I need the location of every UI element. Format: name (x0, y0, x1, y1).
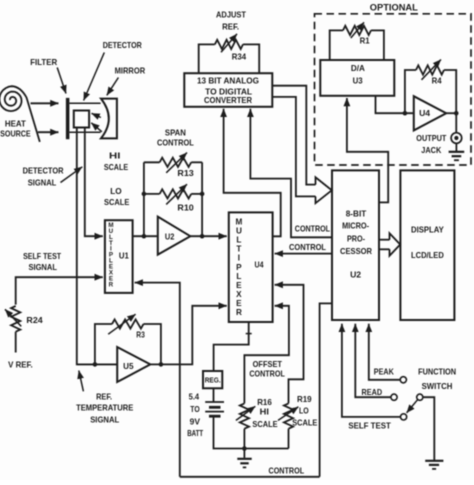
wire heat arrows to filter (31, 102, 59, 104)
svg-text:SCALE: SCALE (104, 162, 129, 172)
svg-text:U2: U2 (165, 231, 175, 241)
svg-text:P: P (236, 263, 242, 272)
svg-text:MICRO-: MICRO- (342, 221, 369, 231)
svg-text:HI: HI (260, 407, 269, 417)
svg-text:TEMPERATURE: TEMPERATURE (76, 403, 134, 413)
svg-text:OPTIONAL: OPTIONAL (370, 3, 419, 13)
node junction R3 left (93, 362, 98, 367)
mirror (101, 99, 117, 139)
svg-text:T: T (236, 245, 241, 254)
wire battery to ground bus (214, 416, 289, 448)
svg-text:R4: R4 (432, 76, 442, 86)
d/a converter U3 (320, 60, 394, 96)
svg-text:8-BIT: 8-BIT (346, 209, 367, 219)
svg-text:9V: 9V (190, 416, 201, 426)
regulator REG (203, 371, 222, 388)
ground battery (243, 449, 245, 458)
wire adc data bus (272, 86, 315, 185)
optional dashed box (315, 14, 472, 165)
heat source spiral (0, 86, 40, 142)
ground output jack (455, 143, 457, 151)
svg-text:R3: R3 (136, 330, 145, 340)
svg-text:CESSOR: CESSOR (340, 246, 372, 256)
wire R24 to V REF (15, 332, 17, 353)
svg-text:R24: R24 (26, 315, 43, 325)
svg-text:SOURCE: SOURCE (0, 129, 31, 139)
wire self test to microprocessor (342, 324, 401, 417)
svg-text:L: L (236, 272, 241, 281)
wire U4 output to adc (224, 109, 281, 237)
svg-text:U3: U3 (353, 76, 363, 86)
resistor R16 (240, 403, 249, 428)
svg-text:REG.: REG. (205, 376, 221, 385)
svg-text:CONVERTER: CONVERTER (204, 95, 252, 105)
svg-text:REF.: REF. (96, 392, 112, 402)
svg-text:CONTROL: CONTROL (295, 224, 330, 234)
svg-text:FUNCTION: FUNCTION (418, 366, 456, 376)
resistor R10 (144, 193, 160, 195)
filter label arrow (57, 68, 66, 94)
svg-text:DETECTOR: DETECTOR (103, 40, 142, 50)
adc U? 13-bit analog to digital converter (184, 73, 272, 107)
wire U2 output to U4 (190, 235, 227, 237)
svg-text:CONTROL: CONTROL (269, 466, 305, 476)
svg-text:OUTPUT: OUTPUT (416, 133, 447, 143)
wire U5 input (77, 363, 117, 365)
multiplexer U4 (229, 212, 273, 322)
svg-text:SIGNAL: SIGNAL (28, 177, 57, 187)
op-amp U5 (117, 347, 150, 382)
node junction R3 right (159, 362, 164, 367)
wire peak to microprocessor (369, 324, 400, 380)
svg-text:READ: READ (362, 387, 383, 397)
svg-text:SIGNAL: SIGNAL (90, 415, 119, 425)
svg-text:U5: U5 (123, 361, 134, 371)
switch wiper arm (407, 399, 418, 413)
wire op-amp to jack (446, 112, 456, 114)
svg-text:R: R (109, 281, 114, 288)
svg-text:SCALE: SCALE (252, 419, 278, 429)
svg-text:E: E (236, 299, 242, 308)
svg-text:U4: U4 (255, 260, 264, 270)
svg-text:SCALE: SCALE (104, 197, 130, 207)
svg-text:R19: R19 (297, 394, 312, 404)
resistor R13 (144, 161, 160, 163)
svg-text:FILTER: FILTER (30, 57, 57, 67)
svg-text:ADJUST: ADJUST (216, 9, 247, 19)
wire left branch vertical (143, 162, 145, 236)
microprocessor U2 8-bit (332, 170, 379, 320)
resistor R34 (199, 44, 215, 73)
resistor R19 (284, 403, 293, 428)
node junction left R10 (142, 192, 147, 197)
svg-text:X: X (236, 290, 242, 299)
svg-text:OFFSET: OFFSET (253, 359, 283, 369)
resistor R1 (330, 30, 343, 60)
svg-text:D/A: D/A (351, 63, 365, 73)
op-amp U4 output (414, 96, 446, 130)
svg-text:R10: R10 (177, 202, 194, 212)
wire read to microprocessor (355, 324, 391, 397)
svg-text:LO: LO (110, 186, 122, 196)
wire beams filter to mirror (69, 102, 100, 104)
svg-text:CONTROL: CONTROL (289, 242, 326, 252)
svg-text:TO: TO (190, 404, 200, 414)
switch pivot (417, 394, 423, 400)
svg-text:SIGNAL: SIGNAL (28, 262, 57, 272)
svg-text:5.4: 5.4 (189, 391, 200, 401)
svg-text:I: I (238, 254, 240, 263)
svg-text:PRO-: PRO- (347, 234, 365, 244)
wire right branch vertical (201, 162, 203, 236)
svg-text:SWITCH: SWITCH (422, 381, 453, 391)
svg-text:E: E (236, 281, 242, 290)
svg-text:LCD/LED: LCD/LED (411, 250, 444, 260)
svg-text:DISPLAY: DISPLAY (411, 224, 444, 234)
svg-text:R: R (236, 308, 242, 317)
svg-text:R34: R34 (232, 51, 247, 61)
svg-text:SELF TEST: SELF TEST (348, 421, 391, 431)
svg-text:PEAK: PEAK (374, 366, 394, 376)
node junction output (454, 111, 459, 116)
detector (74, 111, 89, 128)
filter (66, 98, 70, 139)
svg-text:L: L (236, 236, 241, 245)
wire control microprocessor to U1 (320, 303, 332, 476)
svg-text:LO: LO (299, 406, 309, 416)
svg-text:REF.: REF. (222, 21, 239, 31)
op-amp U2 (158, 217, 191, 255)
wire control microprocessor to U4 (275, 253, 332, 255)
svg-text:HEAT: HEAT (5, 119, 27, 129)
svg-text:DETECTOR: DETECTOR (23, 166, 64, 176)
wire self test signal to U1 (16, 277, 103, 304)
wire detector signal line A (to U5) (77, 128, 117, 365)
node junction R4 left (403, 111, 408, 116)
contact read (391, 394, 397, 400)
svg-text:U: U (236, 227, 242, 236)
display LCD/LED (400, 170, 454, 320)
wire U5 output to U4 (150, 306, 227, 365)
svg-text:U4: U4 (419, 108, 430, 118)
svg-text:BATT: BATT (187, 428, 204, 438)
contact self test (401, 414, 407, 420)
battery 5.4 to 9V (213, 388, 215, 402)
ref temperature label arrow (79, 371, 84, 392)
svg-text:HI: HI (109, 150, 120, 160)
wire R16 to U4 (244, 306, 289, 404)
svg-text:SCALE: SCALE (292, 417, 318, 427)
wire d/a output to op-amp U4 (376, 96, 414, 113)
node junction right R10 (200, 192, 205, 197)
svg-text:U1: U1 (119, 251, 129, 261)
resistor R3 feedback (95, 324, 112, 364)
node junction right U2 out (200, 234, 205, 239)
svg-text:MIRROR: MIRROR (115, 65, 146, 75)
svg-text:SPAN: SPAN (165, 127, 186, 137)
wire mirror to detector arrows (92, 113, 101, 117)
output jack (451, 133, 462, 144)
hollow arrow microprocessor to display (379, 239, 390, 241)
wire detector signal line B (to U1) (85, 128, 103, 237)
detector signal label arrow (61, 167, 83, 183)
wire control microprocessor to adc (250, 109, 332, 238)
node junction left (142, 234, 147, 239)
resistor R24 (11, 306, 20, 332)
svg-text:M: M (235, 218, 242, 227)
svg-text:R1: R1 (360, 36, 370, 46)
wire U1 output to U2 (133, 235, 158, 237)
wire microprocessor to d/a (347, 98, 388, 202)
svg-text:JACK: JACK (421, 145, 441, 155)
multiplexer U1 (105, 220, 133, 293)
wire U4 to regulator (214, 322, 249, 371)
svg-text:R13: R13 (177, 168, 194, 178)
mirror label arrow (107, 78, 119, 96)
svg-text:R16: R16 (257, 397, 272, 407)
svg-text:SELF TEST: SELF TEST (23, 251, 62, 261)
contact peak (400, 377, 406, 383)
wire pivot to ground (423, 397, 434, 460)
node junction ground (242, 446, 247, 451)
detector label arrow (84, 53, 105, 101)
svg-text:V REF.: V REF. (8, 360, 33, 370)
svg-text:13 BIT ANALOG: 13 BIT ANALOG (197, 76, 259, 86)
svg-text:CONTROL: CONTROL (157, 138, 194, 148)
data bus hollow arrow (316, 177, 332, 203)
ground function switch (425, 460, 443, 462)
svg-text:CONTROL: CONTROL (249, 368, 285, 378)
wire R19 to U4 (275, 285, 304, 404)
svg-text:U2: U2 (350, 270, 361, 280)
resistor R4 feedback (405, 70, 416, 113)
